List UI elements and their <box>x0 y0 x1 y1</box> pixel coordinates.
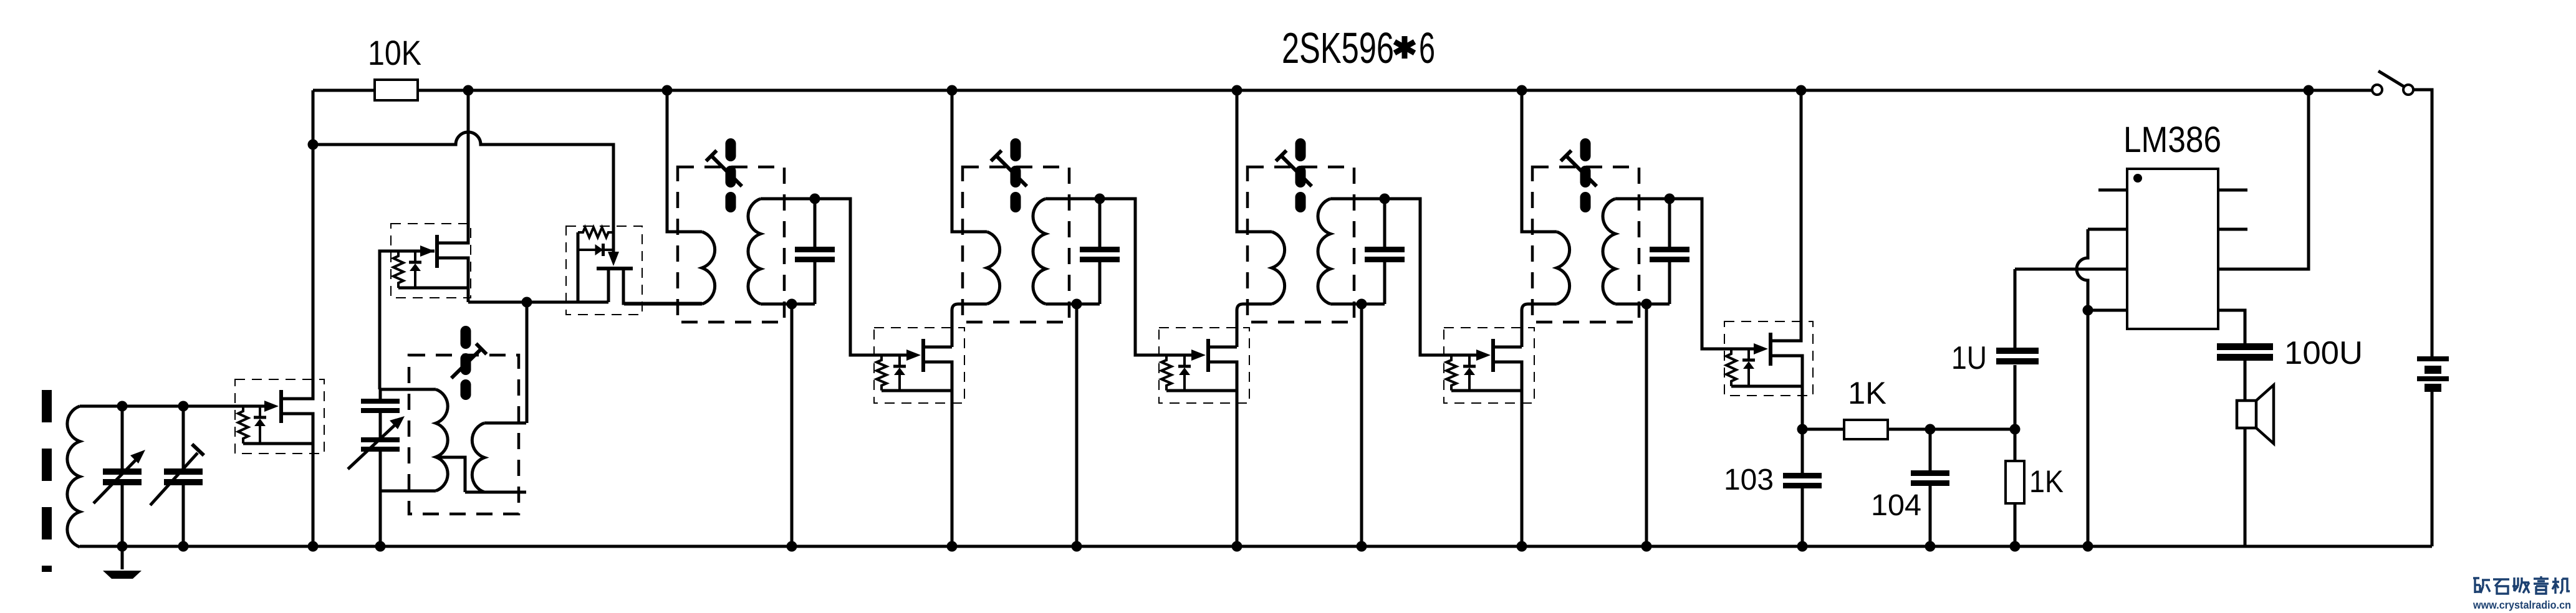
resistor R_g6 <box>1446 355 1456 391</box>
svg-text:100U: 100U <box>2284 335 2363 371</box>
IF transformer T1 primary <box>702 232 715 304</box>
wire T-osc secondary top <box>484 422 526 425</box>
tuning slug of T4 <box>1561 138 1597 212</box>
diode D2 <box>409 251 421 288</box>
node: pin4/ground junction <box>2083 305 2093 316</box>
transistor Q3 channel <box>597 267 633 270</box>
wire ground rail <box>80 545 2432 548</box>
label 2SK596*6 <box>1282 24 1435 72</box>
wire Q6 source to ground <box>1495 362 1522 546</box>
dashed box around T1 <box>678 167 784 322</box>
tuning slug of T-osc <box>451 326 486 400</box>
label 1K (series) <box>1848 376 1886 411</box>
capacitor 103 <box>1783 429 1822 546</box>
wire oscillator gate lead <box>380 251 435 389</box>
transistor Q4 gate arrow <box>906 349 921 361</box>
svg-text:LM386: LM386 <box>2123 120 2221 160</box>
wire battery to ground rail <box>2431 392 2434 546</box>
node: rail at T4 primary <box>1517 85 1527 96</box>
wire Q3 drain to T1 primary <box>623 270 702 303</box>
speaker SP <box>2237 385 2274 444</box>
wire feedback down to T-osc secondary <box>526 302 529 423</box>
U1 pin 2 wire to ground with hop <box>2077 229 2127 546</box>
capacitor 104 <box>1911 429 1949 546</box>
wire T4 secondary top <box>1615 197 1670 201</box>
diode D6 <box>1463 355 1476 391</box>
U1 pin 8 stub <box>2218 189 2247 192</box>
IF transformer T3 primary <box>1272 232 1285 304</box>
svg-text:10K: 10K <box>368 33 421 72</box>
wire C104 node to volume node <box>1930 428 2015 431</box>
antenna coil L1 <box>67 406 80 547</box>
resistor R_g3 <box>578 227 613 237</box>
wire R/D bottom to source <box>243 442 313 445</box>
node: Q1 drain / AGC line <box>308 140 319 150</box>
node: T1 secondary top <box>810 194 820 204</box>
node: Q6 source at rail <box>1517 541 1527 552</box>
node: C104 top <box>1925 424 1936 435</box>
wire switch to battery <box>2414 90 2432 356</box>
transistor Q6 channel <box>1491 339 1495 372</box>
diode D1 <box>254 406 266 444</box>
wire Q3 source down-left <box>607 270 610 302</box>
node: rail at Q7 drain <box>1796 85 1807 96</box>
node: C1 top <box>117 401 128 412</box>
node: audio node <box>2010 424 2021 435</box>
node: T1 ground at rail <box>787 541 797 552</box>
node: T2 secondary top <box>1095 194 1105 204</box>
wire Q2 source <box>439 258 468 302</box>
capacitor C-T1 <box>792 199 835 304</box>
wire Q2 drain to rail <box>439 90 468 243</box>
node: C2 bottom <box>178 541 189 552</box>
wire Q5 source to ground <box>1210 362 1237 546</box>
node: rail at T3 primary <box>1232 85 1242 96</box>
wire T3 primary bottom to Q4 drain <box>1237 304 1272 347</box>
transistor Q1 gate arrow <box>264 401 279 412</box>
dashed box around T-osc <box>409 355 519 514</box>
watermark url <box>2473 599 2571 611</box>
wire T3 secondary to Q6 gate <box>1385 199 1477 355</box>
node: rail at pin 6 <box>2304 85 2314 96</box>
wire U1 pin5 output <box>2218 310 2245 343</box>
node: detector output <box>1797 424 1808 435</box>
node: rail at T2 primary <box>947 85 958 96</box>
capacitor C-T2 <box>1077 199 1120 304</box>
tuning slug of T3 <box>1276 138 1312 212</box>
resistor R_g1 <box>238 406 248 444</box>
wire speaker to ground rail <box>2244 428 2247 546</box>
wire R/D bottom to Q4 source <box>882 389 952 392</box>
wire T1 secondary top <box>761 197 815 201</box>
node: rail at T1 primary <box>662 85 673 96</box>
resistor 1K (series) body <box>1844 420 1888 439</box>
label 104 <box>1871 489 1921 522</box>
wire Q1 drain to top rail <box>283 90 313 399</box>
transistor Q6 gate arrow <box>1476 349 1491 361</box>
wire R/D bottom to Q5 source <box>1166 389 1237 392</box>
variable capacitor C-osc (two-section) <box>348 388 405 546</box>
wire T4 primary top riser <box>1522 90 1557 232</box>
watermark site name <box>2473 576 2570 594</box>
wire T-osc primary bottom <box>380 490 436 493</box>
node: rail at Q2 drain <box>463 85 474 96</box>
wire Q4 source to ground <box>925 362 952 546</box>
dashed box around Q6 <box>1444 328 1534 403</box>
wire T3 ground drop <box>1360 304 1363 546</box>
transistor Q2 channel <box>435 235 439 268</box>
node: T2 secondary bottom <box>1072 299 1082 310</box>
svg-text:2SK596: 2SK596 <box>1282 24 1394 72</box>
wire T2 secondary bottom <box>1045 303 1077 306</box>
capacitor C-T3 <box>1362 199 1405 304</box>
capacitor C-T4 <box>1646 199 1689 304</box>
svg-text:1K: 1K <box>1848 376 1886 411</box>
wire T1 primary top riser <box>667 90 702 232</box>
diode D3 <box>578 244 613 256</box>
wire T1 secondary to Q4 gate <box>815 199 907 355</box>
IF transformer T4 secondary <box>1603 199 1615 304</box>
dashed box around Q4 <box>874 328 964 403</box>
IF transformer T3 secondary <box>1318 199 1330 304</box>
wire T-osc primary tap <box>436 457 465 492</box>
capacitor 100U <box>2217 343 2273 401</box>
svg-text:104: 104 <box>1871 489 1921 522</box>
IF transformer T4 primary <box>1557 232 1570 304</box>
wire R/D left leg <box>577 232 580 302</box>
svg-text:1K: 1K <box>2029 464 2064 499</box>
dashed box around T4 <box>1532 167 1639 322</box>
wire T4 primary bottom to Q5 drain <box>1522 304 1557 347</box>
wire T3 secondary bottom <box>1330 303 1362 306</box>
op-amp U1 LM386 body <box>2127 169 2218 329</box>
wire Q5 drain <box>1210 346 1237 349</box>
label 100U <box>2284 335 2363 371</box>
node: Q5 source at rail <box>1232 541 1242 552</box>
dashed box around Q2 <box>391 224 471 298</box>
trimmer capacitor C2 <box>150 406 204 546</box>
node: T4 secondary bottom <box>1641 299 1652 310</box>
diode D4 <box>893 355 906 391</box>
node: R1K shunt at rail <box>2010 541 2021 552</box>
wire U1 pin6 to supply rail <box>2218 90 2309 269</box>
U1 pin 4 stub <box>2088 309 2127 312</box>
wire detector node to R 1K <box>1802 428 1844 431</box>
transistor Q2 gate arrow <box>420 245 435 257</box>
node: tank bottom at ground rail <box>375 541 386 552</box>
transistor Q7 channel <box>1769 333 1772 366</box>
dashed box around Q5 <box>1159 328 1249 403</box>
transistor Q3 gate arrow <box>608 252 619 266</box>
node: Q4 source at rail <box>947 541 958 552</box>
resistor R_g4 <box>877 355 887 391</box>
diode D5 <box>1178 355 1191 391</box>
resistor R_g5 <box>1161 355 1171 391</box>
wire AGC line with crossover hop <box>313 132 613 252</box>
oscillator coil T-osc primary <box>436 389 448 491</box>
ferrite rod antenna (dashed bar) <box>42 390 52 572</box>
transistor Q7 gate arrow <box>1754 343 1768 354</box>
resistor R_g7 <box>1726 349 1736 386</box>
wire T2 secondary to Q5 gate <box>1100 199 1192 355</box>
wire tap to secondary bottom <box>465 491 526 494</box>
wire T4 secondary to Q7 gate <box>1670 199 1754 349</box>
node: C103 at ground rail <box>1797 541 1808 552</box>
wire top supply rail <box>418 89 2372 92</box>
variable capacitor C1 <box>94 406 145 546</box>
node: T1 secondary bottom <box>787 299 797 310</box>
tuning slug of T1 <box>706 138 742 212</box>
battery B1 <box>2417 356 2449 392</box>
wire R/D bottom to Q2 source <box>398 287 468 290</box>
node: U1 ground at rail <box>2083 541 2093 552</box>
wire 1U to LM386 pin3 <box>2015 268 2127 271</box>
wire T2 secondary top <box>1045 197 1100 201</box>
switch S1 <box>2372 71 2413 95</box>
wire T2 primary bottom to Q3 drain <box>952 304 987 347</box>
IF transformer T1 secondary <box>748 199 761 304</box>
dashed box around Q7 <box>1724 321 1813 396</box>
dashed box around Q1 <box>235 379 324 454</box>
wire Q4 drain <box>925 346 952 349</box>
node: T4 ground at rail <box>1641 541 1652 552</box>
node: C104 at ground rail <box>1925 541 1936 552</box>
transistor Q1 channel <box>279 390 283 423</box>
dashed box around T3 <box>1247 167 1354 322</box>
node: T3 secondary bottom <box>1357 299 1367 310</box>
label 1K (shunt) <box>2029 464 2064 499</box>
node: Q1 source at ground rail <box>308 541 319 552</box>
wire R/D bottom to Q7 source <box>1731 385 1802 388</box>
dashed box around T2 <box>963 167 1069 322</box>
wire top rail left segment <box>313 89 375 92</box>
wire T1 secondary bottom <box>761 303 792 306</box>
node: C1 bottom <box>117 541 128 552</box>
IF transformer T2 primary <box>987 232 1000 304</box>
wire T4 ground drop <box>1645 304 1648 546</box>
IF transformer T2 secondary <box>1033 199 1045 304</box>
transistor Q5 channel <box>1206 339 1210 372</box>
transistor Q4 channel <box>921 339 925 372</box>
wire tank top to T-osc primary <box>380 388 436 391</box>
wire T2 ground drop <box>1075 304 1079 546</box>
wire Q7 source to detector node <box>1772 356 1802 429</box>
node: T4 secondary top <box>1665 194 1675 204</box>
node: feedback junction <box>522 297 532 308</box>
node: T3 secondary top <box>1380 194 1390 204</box>
resistor R_g2 <box>393 251 403 288</box>
wire Q1 source to ground <box>283 414 313 546</box>
node: C2 top <box>178 401 189 412</box>
label LM386 <box>2123 120 2221 160</box>
wire T1 ground drop <box>791 304 794 546</box>
wire Q7 drain to rail <box>1772 90 1801 341</box>
wire T4 secondary bottom <box>1615 303 1646 306</box>
U1 pin-1 mark <box>2133 174 2142 183</box>
svg-text:103: 103 <box>1724 463 1774 497</box>
diode D7 <box>1742 349 1755 386</box>
wire Q2 source line to oscillator feedback <box>468 301 608 304</box>
wire T1 primary bottom <box>624 303 702 306</box>
U1 pin 7 stub <box>2218 228 2247 231</box>
oscillator coil T-osc secondary <box>472 423 484 492</box>
label 103 <box>1724 463 1774 497</box>
wire T3 primary top riser <box>1237 90 1272 232</box>
U1 pin 1 stub <box>2098 189 2127 192</box>
wire R/D bottom to Q6 source <box>1451 389 1522 392</box>
svg-text:www.crystalradio.cn: www.crystalradio.cn <box>2473 599 2571 611</box>
transistor Q5 gate arrow <box>1191 349 1206 361</box>
wire T3 secondary top <box>1330 197 1385 201</box>
wire Q6 drain <box>1495 346 1522 349</box>
label 1U <box>1951 340 1987 376</box>
svg-text:1U: 1U <box>1951 340 1987 376</box>
node: T3 ground at rail <box>1357 541 1367 552</box>
wire antenna top (coil to gate of Q1) <box>80 405 265 408</box>
wire R 1K to C104 node <box>1888 428 1930 431</box>
resistor 1K (shunt) body <box>2006 429 2024 546</box>
label 10K <box>368 33 421 72</box>
node: T2 ground at rail <box>1072 541 1082 552</box>
resistor 10K body <box>375 80 418 100</box>
wire T2 primary top riser <box>952 90 987 232</box>
tuning slug of T2 <box>991 138 1027 212</box>
svg-text:6: 6 <box>1419 24 1435 72</box>
wire Q3 gate (from AGC line) <box>612 145 615 252</box>
ground symbol <box>103 546 142 579</box>
dashed box around Q3 <box>566 226 642 315</box>
capacitor 1U <box>1996 269 2039 429</box>
